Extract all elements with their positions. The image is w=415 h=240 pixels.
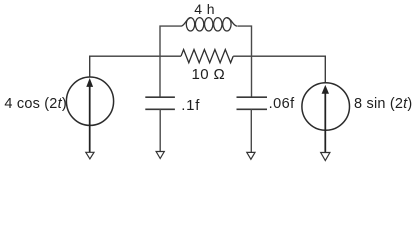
svg-text:10 Ω: 10 Ω: [192, 66, 226, 83]
wire: capacitor C2 to ground: [250, 109, 252, 152]
wire: left top (source I1 up and across to resistor): [90, 56, 181, 77]
svg-text:4 cos (2t): 4 cos (2t): [4, 96, 66, 112]
ground (capacitor C2): [247, 152, 255, 159]
ground (left source): [86, 152, 94, 159]
wire: resistor to right corner down to source I2: [233, 56, 325, 83]
wire: right branch vertical (coil line down to capacitor C2): [238, 26, 252, 97]
ground (right source): [321, 153, 330, 161]
current source I2 circle: [302, 83, 350, 131]
wire: left branch vertical (coil line down to capacitor C1): [160, 26, 181, 97]
wire: capacitor C1 to ground: [159, 109, 161, 151]
current source I1 circle: [66, 77, 113, 125]
capacitor C2 plates: [237, 97, 268, 109]
current source I1 arrow: [89, 86, 91, 152]
svg-text:.06f: .06f: [269, 96, 296, 112]
svg-text:8 sin (2t): 8 sin (2t): [354, 96, 412, 112]
svg-text:4 h: 4 h: [194, 1, 215, 17]
ground (capacitor C1): [156, 152, 164, 159]
inductor L1 (4 h coil): [181, 18, 237, 31]
svg-text:.1f: .1f: [181, 97, 200, 114]
current source I2 arrow: [324, 93, 326, 153]
resistor R1 10 ohm zigzag: [181, 50, 233, 63]
capacitor C1 plates: [145, 97, 175, 109]
